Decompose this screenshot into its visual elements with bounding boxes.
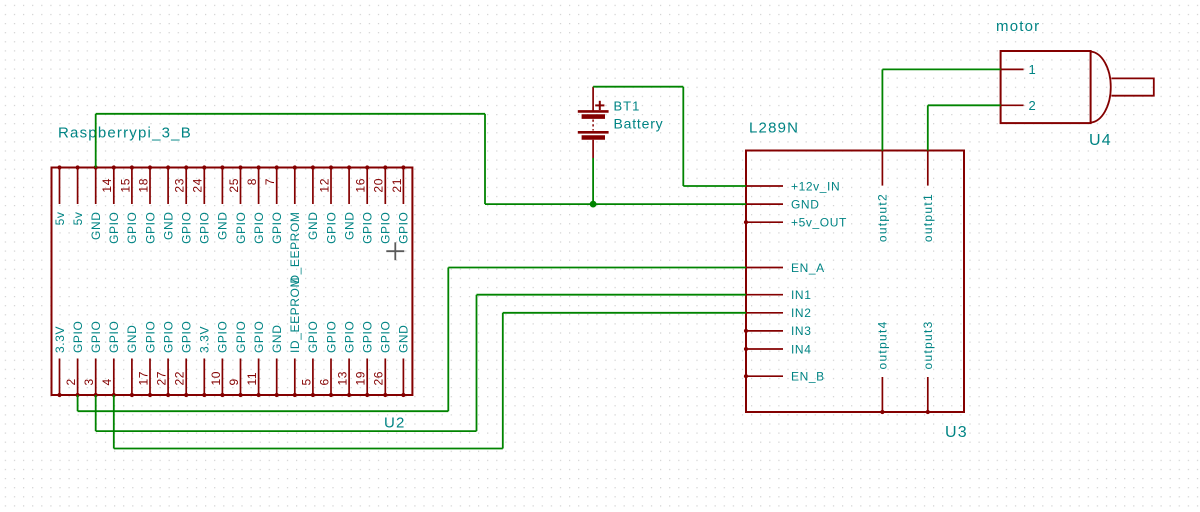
- U3 left pin EN_B: [744, 370, 825, 384]
- svg-text:GPIO: GPIO: [89, 321, 103, 353]
- U2 bottom pin 3: GPIO3: [82, 321, 103, 398]
- svg-text:GPIO: GPIO: [125, 212, 139, 244]
- svg-text:GPIO: GPIO: [361, 321, 375, 353]
- U2 bottom pin 20: GND: [397, 325, 411, 398]
- motor U4 shaft: [1111, 78, 1153, 95]
- svg-text:3.3V: 3.3V: [53, 326, 67, 353]
- U2 top pin 19: GPIO20: [372, 165, 393, 244]
- U2 bottom pin 16: GPIO6: [317, 321, 338, 398]
- battery BT1 inter-cell dashed link: [592, 120, 594, 131]
- wire IN2: vertical rise: [502, 313, 504, 449]
- svg-text:EN_B: EN_B: [791, 370, 825, 384]
- svg-text:EN_A: EN_A: [791, 261, 825, 275]
- svg-text:IN1: IN1: [791, 288, 811, 302]
- svg-text:14: 14: [100, 178, 114, 193]
- svg-text:25: 25: [227, 178, 241, 193]
- U3 left pin +12v_IN: [746, 179, 840, 193]
- svg-text:GND: GND: [306, 212, 320, 240]
- svg-text:20: 20: [372, 178, 386, 193]
- motor U4 pin 1: [1001, 62, 1036, 77]
- U3 left pin IN4: [744, 342, 812, 356]
- wire +12V: to U3 +12v_IN pin: [683, 185, 746, 187]
- U2 symbol origin cross: [386, 242, 404, 260]
- svg-text:27: 27: [155, 371, 169, 386]
- svg-text:GPIO: GPIO: [397, 212, 411, 244]
- U3 top pin output2: [876, 151, 890, 243]
- svg-text:GPIO: GPIO: [252, 321, 266, 353]
- svg-text:12: 12: [317, 178, 331, 193]
- U2 bottom pin 19: GPIO26: [372, 321, 393, 398]
- svg-text:GND: GND: [216, 212, 230, 240]
- U2 top pin 14: ID_EEPROM: [288, 165, 302, 287]
- svg-text:13: 13: [336, 371, 350, 386]
- wire battery negative drop: [592, 158, 594, 204]
- svg-text:output3: output3: [921, 320, 935, 369]
- battery BT1 negative pin: [592, 140, 594, 158]
- svg-text:5v: 5v: [71, 212, 85, 226]
- svg-text:GPIO: GPIO: [107, 212, 121, 244]
- svg-text:GPIO: GPIO: [342, 321, 356, 353]
- wire output2 to motor: vertical: [881, 69, 883, 150]
- svg-text:GND: GND: [397, 325, 411, 353]
- svg-text:GND: GND: [270, 325, 284, 353]
- U2 bottom pin 10: GPIO10: [209, 321, 230, 398]
- svg-text:GPIO: GPIO: [306, 321, 320, 353]
- U2 bottom pin 8: GPIO22: [173, 321, 194, 398]
- wire IN1: horizontal run: [96, 430, 477, 432]
- svg-text:2: 2: [64, 378, 78, 385]
- junction GND rail at battery: [590, 201, 597, 208]
- motor U4 body: [1001, 51, 1091, 123]
- svg-text:GPIO: GPIO: [71, 321, 85, 353]
- svg-text:GPIO: GPIO: [198, 212, 212, 244]
- U3 top pin output1: [921, 151, 935, 243]
- wire GND: down to GND rail: [484, 114, 486, 204]
- svg-text:+12v_IN: +12v_IN: [791, 179, 840, 193]
- U2 bottom pin 12: GPIO11: [245, 321, 266, 398]
- svg-text:U3: U3: [945, 424, 968, 441]
- battery BT1 cell 2 positive plate: [578, 131, 609, 134]
- svg-text:GPIO: GPIO: [107, 321, 121, 353]
- svg-text:Raspberrypi_3_B: Raspberrypi_3_B: [58, 125, 192, 142]
- svg-text:GPIO: GPIO: [234, 211, 248, 243]
- svg-text:output2: output2: [876, 193, 890, 242]
- svg-text:GPIO: GPIO: [379, 321, 393, 353]
- U3 left pin GND: [746, 197, 819, 211]
- U3 left pin +5v_OUT: [744, 216, 847, 230]
- svg-text:IN2: IN2: [791, 306, 811, 320]
- battery BT1 cell 1 positive plate: [578, 110, 609, 113]
- svg-text:motor: motor: [996, 18, 1040, 35]
- U2 bottom pin 11: GPIO9: [227, 321, 248, 398]
- U2 top pin 9: GPIO24: [191, 165, 212, 244]
- svg-text:L289N: L289N: [749, 120, 799, 137]
- svg-text:26: 26: [372, 371, 386, 386]
- svg-text:5: 5: [299, 378, 313, 385]
- wire IN1: vertical rise: [476, 295, 478, 431]
- svg-text:GND: GND: [342, 212, 356, 240]
- svg-text:17: 17: [136, 371, 150, 386]
- wire IN2: down from U2 GPIO4: [113, 395, 115, 449]
- U2 top pin 3: GND: [89, 165, 103, 240]
- U3 left pin EN_A: [746, 261, 825, 275]
- svg-text:GND: GND: [125, 325, 139, 353]
- U2 bottom pin 15: GPIO5: [299, 321, 320, 398]
- svg-text:GPIO: GPIO: [180, 321, 194, 353]
- svg-text:3: 3: [82, 378, 96, 385]
- svg-text:3.3V: 3.3V: [198, 326, 212, 353]
- wire GND: rail to U3 GND pin: [485, 203, 746, 205]
- motor U4 pin 2: [1001, 98, 1036, 113]
- svg-text:GPIO: GPIO: [216, 321, 230, 353]
- U2 top pin 1: 5v: [53, 165, 67, 225]
- svg-text:23: 23: [173, 178, 187, 193]
- svg-text:7: 7: [263, 178, 277, 185]
- svg-text:GPIO: GPIO: [270, 212, 284, 244]
- svg-text:output4: output4: [876, 320, 890, 369]
- U2 bottom pin 6: GPIO17: [136, 321, 157, 398]
- U2 top pin 6: GPIO18: [136, 165, 157, 244]
- U2 bottom pin 18: GPIO19: [354, 321, 375, 398]
- wire +12V: from battery plus: [593, 86, 683, 88]
- svg-text:GPIO: GPIO: [143, 212, 157, 244]
- IC U3 L289N body: [746, 151, 964, 413]
- svg-text:U2: U2: [384, 415, 406, 432]
- svg-text:Battery: Battery: [614, 116, 664, 132]
- svg-text:IN4: IN4: [791, 342, 811, 356]
- wire IN2: to U3 IN2 pin: [503, 312, 746, 314]
- svg-text:U4: U4: [1089, 132, 1112, 149]
- U2 bottom pin 2: GPIO2: [64, 321, 85, 398]
- U2 top pin 18: GPIO16: [354, 165, 375, 244]
- svg-text:21: 21: [390, 178, 404, 193]
- U3 left pin IN3: [744, 324, 812, 338]
- svg-text:GPIO: GPIO: [252, 212, 266, 244]
- svg-text:9: 9: [227, 378, 241, 385]
- svg-text:output1: output1: [921, 193, 935, 242]
- U3 left pin IN2: [746, 306, 811, 320]
- wire EN_A: horizontal run: [78, 410, 449, 412]
- svg-text:2: 2: [1029, 98, 1036, 113]
- U2 bottom pin 7: GPIO27: [155, 321, 176, 398]
- U2 top pin 5: GPIO15: [118, 165, 139, 244]
- wire EN_A: down from U2 GPIO2: [77, 395, 79, 411]
- svg-text:BT1: BT1: [614, 99, 641, 114]
- svg-text:GPIO: GPIO: [379, 212, 393, 244]
- svg-text:GPIO: GPIO: [180, 212, 194, 244]
- svg-text:GPIO: GPIO: [324, 212, 338, 244]
- U2 top pin 12: GPIO8: [245, 165, 266, 244]
- wire IN1: down from U2 GPIO3: [95, 395, 97, 431]
- wire +12V: vertical drop: [682, 87, 684, 186]
- wire GND: horizontal across top: [96, 113, 485, 115]
- battery BT1 positive pin: [592, 87, 594, 111]
- svg-text:4: 4: [100, 378, 114, 385]
- svg-text:11: 11: [245, 372, 259, 386]
- svg-text:GND: GND: [161, 212, 175, 240]
- IC U2 Raspberrypi_3_B body: [52, 168, 413, 396]
- svg-text:10: 10: [209, 371, 223, 386]
- U3 bottom pin output4: [876, 320, 890, 414]
- U2 top pin 16: GPIO12: [317, 165, 338, 244]
- svg-text:GND: GND: [791, 197, 819, 211]
- svg-text:GPIO: GPIO: [161, 321, 175, 353]
- svg-text:ID_EEPROM: ID_EEPROM: [288, 277, 302, 353]
- U2 top pin 17: GND: [342, 165, 356, 240]
- motor U4 end bell arc: [1091, 52, 1111, 123]
- svg-text:GND: GND: [89, 212, 103, 240]
- U2 top pin 4: GPIO14: [100, 165, 121, 244]
- svg-text:19: 19: [354, 371, 368, 386]
- svg-text:16: 16: [354, 178, 368, 193]
- svg-text:22: 22: [173, 371, 187, 386]
- U2 top pin 2: 5v: [71, 165, 85, 225]
- U3 bottom pin output3: [921, 320, 935, 414]
- U2 bottom pin 9: 3.3V: [198, 326, 212, 397]
- wire IN1: to U3 IN1 pin: [477, 294, 747, 296]
- svg-text:+5v_OUT: +5v_OUT: [791, 216, 847, 230]
- U2 top pin 11: GPIO25: [227, 165, 248, 244]
- svg-text:GPIO: GPIO: [143, 321, 157, 353]
- U2 top pin 8: GPIO23: [173, 165, 194, 244]
- U2 bottom pin 17: GPIO13: [336, 321, 357, 398]
- svg-text:GPIO: GPIO: [324, 321, 338, 353]
- svg-text:1: 1: [1029, 62, 1036, 77]
- wire GND: up from U2 pin3 GND: [95, 114, 97, 168]
- U2 top pin 15: GND: [306, 165, 320, 240]
- battery BT1 cell 2 negative plate: [582, 135, 605, 140]
- U2 bottom pin 4: GPIO4: [100, 321, 121, 398]
- U2 bottom pin 1: 3.3V: [53, 326, 67, 397]
- svg-text:6: 6: [317, 378, 331, 385]
- wire output1 to motor: vertical: [927, 105, 929, 150]
- U2 top pin 7: GND: [161, 165, 175, 240]
- battery BT1 plus sign: [595, 101, 604, 110]
- svg-text:GPIO: GPIO: [234, 321, 248, 353]
- svg-text:24: 24: [191, 178, 205, 193]
- svg-text:ID_EEPROM: ID_EEPROM: [288, 212, 302, 288]
- svg-text:18: 18: [136, 178, 150, 193]
- svg-text:IN3: IN3: [791, 324, 811, 338]
- wire output2 to motor pin 1: [882, 68, 1000, 70]
- U2 bottom pin 5: GND: [125, 325, 139, 398]
- svg-text:5v: 5v: [53, 212, 67, 226]
- U2 top pin 20: GPIO21: [390, 165, 411, 244]
- battery BT1 cell 1 negative plate: [582, 114, 605, 119]
- U2 bottom pin 14: ID_EEPROM: [288, 277, 302, 397]
- svg-text:8: 8: [245, 178, 259, 185]
- U2 bottom pin 13: GND: [270, 325, 284, 398]
- wire output1 to motor pin 2: [928, 104, 1001, 106]
- svg-text:GPIO: GPIO: [361, 212, 375, 244]
- U2 top pin 10: GND: [216, 165, 230, 240]
- wire EN_A: to U3 EN_A pin: [448, 267, 746, 269]
- wire IN2: horizontal run: [114, 448, 503, 450]
- U3 left pin IN1: [746, 288, 811, 302]
- wire EN_A: vertical rise: [447, 268, 449, 412]
- svg-text:15: 15: [118, 178, 132, 193]
- U2 top pin 13: GPIO7: [263, 165, 284, 244]
